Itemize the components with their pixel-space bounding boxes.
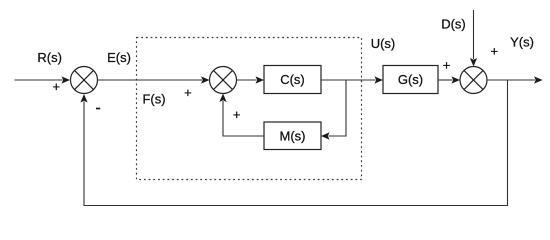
svg-text:G(s): G(s) — [398, 72, 423, 87]
block C(s) — [264, 66, 321, 94]
block M(s) — [264, 122, 321, 150]
svg-text:M(s): M(s) — [280, 128, 306, 143]
wire: D(s) disturbance input down into S3 — [470, 10, 477, 67]
svg-text:D(s): D(s) — [441, 17, 466, 32]
summing junction S1 — [71, 67, 98, 94]
wire: C(s) output to block G(s) — [321, 76, 383, 83]
wire: S2 output into block C(s) — [237, 76, 265, 83]
wire: branch from C(s) output down into M(s) — [321, 80, 346, 140]
svg-text:U(s): U(s) — [371, 36, 396, 51]
svg-text:+: + — [443, 58, 451, 73]
minus sign at S1 feedback input — [96, 108, 100, 110]
wire: S3 output Y(s) — [487, 76, 543, 83]
dashed inner-loop boundary box — [137, 38, 362, 180]
svg-text:+: + — [184, 85, 192, 100]
svg-text:C(s): C(s) — [280, 72, 305, 87]
svg-text:F(s): F(s) — [142, 92, 165, 107]
svg-text:+: + — [53, 79, 61, 94]
svg-text:R(s): R(s) — [37, 50, 62, 65]
svg-text:+: + — [491, 43, 499, 58]
svg-text:+: + — [233, 107, 241, 122]
wire: S1 output to summer S2 (E(s) signal) — [98, 76, 210, 83]
summing junction S3 — [460, 67, 487, 94]
summing junction S2 — [210, 67, 237, 94]
wire: feedback from output down, across bottom, up into S1 — [80, 80, 507, 206]
block G(s) — [383, 66, 438, 94]
wire: G(s) output into summer S3 — [438, 76, 460, 83]
wire: M(s) output up into S2 bottom — [219, 94, 264, 137]
svg-text:E(s): E(s) — [107, 50, 131, 65]
svg-text:Y(s): Y(s) — [510, 35, 534, 50]
wire: R(s) input into summer S1 — [15, 76, 71, 83]
